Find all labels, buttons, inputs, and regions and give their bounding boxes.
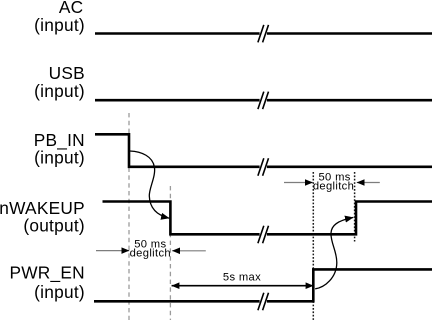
svg-text:(output): (output) [23,216,85,236]
arrow left of first 50ms deglitch [96,250,129,252]
curved arrow PB_IN fall to nWAKEUP fall [130,151,170,218]
wire USB signal right segment [267,99,432,102]
wire AC signal right segment [267,32,432,35]
wire nWAKEUP low segment and rising edge to high [267,202,432,235]
arrow right of first 50ms deglitch [172,250,206,252]
svg-text:(input): (input) [34,15,85,35]
break symbol on nWAKEUP line [258,226,269,244]
wire USB signal left segment [95,99,260,102]
svg-text:(input): (input) [34,148,85,168]
svg-text:PWR_EN: PWR_EN [9,263,84,283]
break symbol on USB line [258,92,269,110]
wire AC signal left segment [95,32,260,35]
arrow right of second 50ms deglitch [357,182,380,184]
wire nWAKEUP high segment and falling edge to low [103,202,260,235]
wire PWR_EN low segment and rising edge to high [267,269,432,301]
break symbol on AC line [258,25,269,43]
svg-text:(input): (input) [34,282,85,302]
dotted guide line at nWAKEUP rising edge [354,172,356,242]
wire PWR_EN low left segment [94,300,260,303]
dotted guide line at PWR_EN rising edge [312,172,314,320]
break symbol on PB_IN line [258,158,269,176]
arrow left of second 50ms deglitch [284,182,313,184]
svg-text:deglitch: deglitch [130,247,171,259]
dashed guide line at PB_IN falling edge [128,113,130,320]
double arrow 5s max [172,285,314,287]
curved arrow PWR_EN rise to nWAKEUP rise [315,217,353,288]
wire PB_IN low right segment [267,166,432,169]
svg-text:deglitch: deglitch [313,181,354,193]
wire PB_IN high segment and falling edge to low [95,134,260,167]
break symbol on PWR_EN line [258,293,269,311]
svg-text:5s max: 5s max [223,271,261,283]
dashed guide line at nWAKEUP falling edge [169,186,171,320]
svg-text:(input): (input) [34,81,85,101]
